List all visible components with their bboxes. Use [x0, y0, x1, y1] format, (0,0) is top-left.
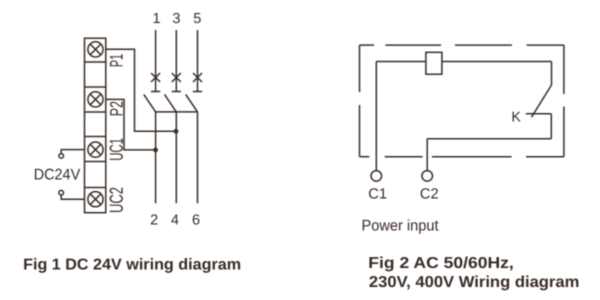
junction dot on line 4 — [174, 129, 179, 134]
svg-text:2: 2 — [150, 213, 158, 229]
terminal block body — [85, 38, 106, 213]
terminal C1 circle — [371, 171, 382, 182]
terminal block divider 1 — [85, 61, 106, 63]
terminal block divider 5 — [85, 161, 106, 163]
contact K blade — [532, 85, 552, 117]
switch blade pole 3 — [186, 94, 198, 112]
svg-text:C2: C2 — [420, 187, 439, 203]
wire P1 to line 3/4 junction — [106, 49, 176, 131]
label P2 (rotated) — [110, 102, 123, 116]
svg-text:6: 6 — [192, 213, 200, 229]
line 4 lower segment — [175, 112, 177, 203]
switch blade pole 2 — [165, 94, 177, 112]
svg-text:Fig 2 AC 50/60Hz,: Fig 2 AC 50/60Hz, — [368, 255, 514, 272]
label UC1 (rotated) — [110, 139, 123, 160]
svg-text:230V, 400V Wiring diagram: 230V, 400V Wiring diagram — [369, 274, 580, 291]
wire top run left of fuse — [376, 61, 426, 63]
fuse box F1 — [426, 52, 442, 74]
wire bottom run — [427, 138, 551, 140]
junction dot on line 2 — [153, 148, 158, 153]
svg-text:K: K — [511, 109, 521, 125]
line 5 upper segment — [197, 30, 199, 91]
DC24V pin upper (open circle) — [59, 154, 64, 159]
wire UC1 to DC24V pin — [61, 150, 84, 154]
wire C2 riser — [426, 139, 428, 171]
breaker X mark on line 3 — [172, 73, 181, 82]
line 6 lower segment — [197, 112, 199, 203]
switch linkage bar — [156, 111, 198, 113]
label UC2 (rotated) — [110, 188, 123, 212]
svg-text:Power input: Power input — [362, 218, 440, 235]
svg-text:5: 5 — [193, 11, 201, 27]
enclosure dashed border: top edge — [360, 44, 564, 46]
terminal block divider 6 — [85, 187, 106, 189]
terminal UC1 circle-X — [88, 142, 103, 157]
svg-text:3: 3 — [172, 11, 180, 27]
terminal UC2 circle-X — [88, 192, 103, 207]
enclosure dashed border: left edge — [359, 45, 361, 157]
contact T-bar line 1 — [151, 91, 160, 93]
switch blade pole 1 — [144, 94, 156, 112]
terminal block divider 3 — [85, 111, 106, 113]
breaker X mark on line 5 — [193, 73, 202, 82]
line 1 upper segment — [155, 30, 157, 91]
enclosure dashed border: right edge — [563, 45, 565, 157]
contact K fixed terminal — [526, 113, 552, 115]
svg-text:1: 1 — [153, 11, 161, 27]
wire right drop to contact — [551, 62, 553, 86]
label P1 (rotated) — [110, 54, 123, 66]
terminal P2 circle-X — [88, 92, 103, 107]
svg-text:C1: C1 — [368, 187, 387, 203]
terminal block divider 4 — [85, 136, 106, 138]
terminal block divider 2 — [85, 86, 106, 88]
wire P2 to line 1/2 junction — [106, 99, 156, 149]
terminal P1 circle-X — [88, 42, 103, 57]
contact T-bar line 5 — [193, 91, 202, 93]
contact T-bar line 3 — [172, 91, 181, 93]
line 3 upper segment — [175, 30, 177, 91]
svg-text:Fig 1 DC 24V wiring diagram: Fig 1 DC 24V wiring diagram — [23, 257, 241, 274]
breaker X mark on line 1 — [151, 73, 160, 82]
DC24V pin lower (open circle) — [59, 190, 64, 195]
wire contact to bottom run — [550, 114, 552, 139]
wire UC2 to DC24V pin — [61, 195, 84, 199]
enclosure dashed border: bottom edge — [360, 156, 564, 158]
svg-text:4: 4 — [171, 213, 179, 229]
line 2 lower segment — [155, 112, 157, 203]
wire top run right of fuse — [442, 61, 552, 63]
terminal C2 circle — [422, 171, 433, 182]
wire C1 riser — [375, 62, 377, 171]
svg-text:DC24V: DC24V — [34, 166, 81, 183]
